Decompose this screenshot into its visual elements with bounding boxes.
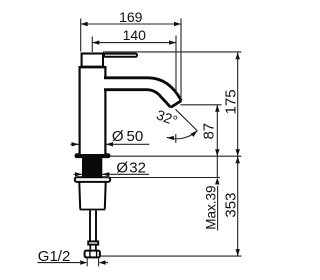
dimension line Max.39 <box>216 156 218 177</box>
dimension line 140 <box>92 42 176 44</box>
spout outlet face <box>171 101 182 108</box>
spout outer edge <box>104 78 181 101</box>
svg-text:353: 353 <box>222 193 239 218</box>
dia50 leader left <box>71 143 79 145</box>
deck line <box>111 155 242 157</box>
G1/2 arrow left <box>80 260 87 264</box>
angle arc <box>167 131 197 139</box>
extension line right (x=181) <box>180 19 182 101</box>
G1/2 underline leader <box>38 262 81 264</box>
extension tick (x=92.3) <box>91 37 93 53</box>
supply pipe <box>90 211 96 242</box>
cone lip <box>75 177 110 182</box>
top reference line <box>103 51 242 53</box>
faucet base flange <box>75 153 111 158</box>
angle vertex tick <box>175 134 177 143</box>
faucet body <box>80 60 106 154</box>
angle arc arrow left <box>167 136 174 140</box>
dia50 leader right <box>106 143 149 145</box>
spout outlet reference line <box>180 104 221 106</box>
dimension line 169 <box>81 23 181 25</box>
angle slant line <box>176 109 198 131</box>
neck <box>90 245 96 250</box>
collar <box>88 241 98 244</box>
cone sides <box>79 182 105 209</box>
svg-text:175: 175 <box>222 89 239 114</box>
Max.39 underline <box>217 186 219 231</box>
svg-text:169: 169 <box>119 9 143 25</box>
cone bottom <box>80 209 106 211</box>
hose nut <box>85 251 100 258</box>
G1/2 right tail <box>105 262 108 264</box>
cap bottom joint <box>80 66 104 69</box>
faucet cap <box>82 54 103 67</box>
svg-text:140: 140 <box>123 27 147 43</box>
dimension line 175 <box>237 52 239 156</box>
dimension line 353 <box>237 156 239 256</box>
svg-text:Max.39: Max.39 <box>203 185 218 229</box>
svg-text:87: 87 <box>200 123 217 140</box>
max39 reference line <box>102 177 220 179</box>
spout inner edge <box>104 90 171 108</box>
nut facets <box>90 251 97 257</box>
dimension line 87 <box>216 105 218 156</box>
G1/2 arrow right <box>99 260 106 264</box>
G1/2 ext ticks <box>86 258 88 266</box>
angle arc arrow right <box>191 131 198 137</box>
svg-text:Ø 50: Ø 50 <box>112 128 143 145</box>
bottom reference line <box>101 255 242 257</box>
extension line left (x=80.7) <box>80 19 82 52</box>
spout fill <box>103 77 181 108</box>
dia32 leader right <box>102 173 149 175</box>
dia32 leader left <box>74 173 83 175</box>
lever handle <box>104 54 137 57</box>
extension line (x=176) <box>175 36 177 94</box>
threaded shank (solid) <box>82 156 102 177</box>
